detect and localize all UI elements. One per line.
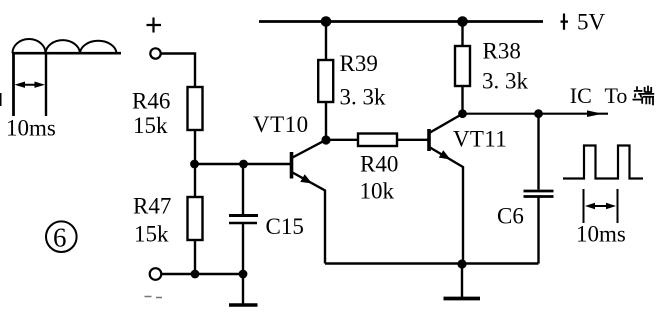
svg-text:R38: R38	[483, 39, 521, 64]
svg-text:3. 3k: 3. 3k	[482, 69, 529, 94]
svg-text:C15: C15	[266, 214, 304, 239]
svg-text:R46: R46	[132, 88, 170, 113]
svg-text:To: To	[605, 83, 628, 108]
svg-text:C6: C6	[497, 204, 524, 229]
svg-text:10k: 10k	[360, 179, 395, 204]
svg-text:IC: IC	[570, 83, 592, 108]
svg-text:R39: R39	[340, 51, 378, 76]
svg-text:VT11: VT11	[453, 126, 507, 151]
svg-text:10ms: 10ms	[576, 222, 626, 247]
svg-text:3. 3k: 3. 3k	[340, 85, 387, 110]
svg-text:15k: 15k	[134, 221, 169, 246]
svg-text:6: 6	[53, 223, 67, 253]
svg-text:15k: 15k	[133, 113, 168, 138]
svg-text:R40: R40	[360, 152, 398, 177]
svg-text:10ms: 10ms	[6, 116, 56, 141]
svg-text:5V: 5V	[577, 10, 606, 35]
svg-text:VT10: VT10	[253, 112, 309, 137]
svg-text:R47: R47	[133, 193, 171, 218]
